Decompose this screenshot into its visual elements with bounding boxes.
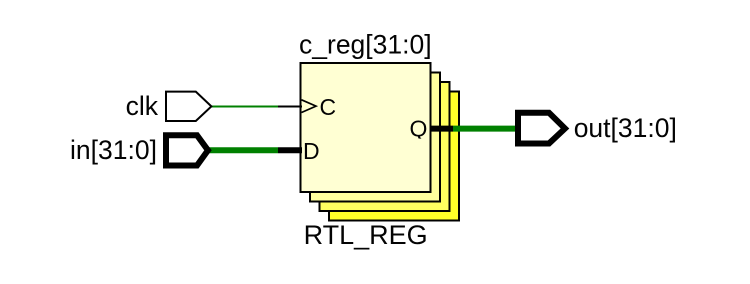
svg-text:RTL_REG: RTL_REG (304, 220, 428, 250)
svg-text:c_reg[31:0]: c_reg[31:0] (299, 30, 432, 60)
svg-text:Q: Q (410, 116, 428, 142)
svg-text:out[31:0]: out[31:0] (574, 113, 677, 143)
svg-text:clk: clk (126, 91, 159, 121)
svg-text:C: C (320, 94, 337, 120)
svg-text:in[31:0]: in[31:0] (70, 135, 157, 165)
svg-text:D: D (303, 138, 320, 164)
